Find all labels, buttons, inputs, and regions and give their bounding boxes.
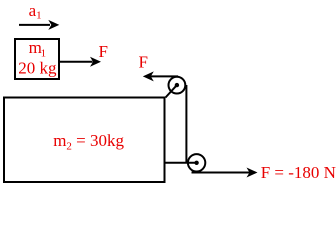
svg-text:20 kg: 20 kg [18,58,57,77]
label F at top rope [139,52,148,71]
bottom pulley axle dot [194,161,198,165]
force arrow F at top rope (pointing left) [143,71,154,81]
label a1 [29,1,42,22]
top pulley wheel [169,77,186,94]
svg-text:m2 = 30kg: m2 = 30kg [53,131,124,152]
bottom pulley wheel [188,154,205,171]
mass m2 box [4,98,165,183]
pulley strut (top pulley mount) [166,85,177,97]
pulley axle link (bottom pulley to m2) [165,162,197,164]
force arrow F on m1 [60,57,101,67]
label F on m1 arrow [99,42,108,61]
label 20 kg [18,58,57,77]
svg-text:F: F [99,42,108,61]
label F = -180 N [261,163,336,182]
svg-text:F = -180 N: F = -180 N [261,163,336,182]
rope from top pulley to F arrow [150,75,178,77]
label m2 = 30kg [53,131,124,152]
acceleration arrow a1 [19,20,59,30]
mass m1 box [15,39,59,79]
label m1 [29,38,47,59]
top pulley axle dot [175,83,179,87]
rope to F = -180 N arrow [192,168,258,178]
svg-text:F: F [139,52,148,71]
rope vertical segment [185,85,187,163]
